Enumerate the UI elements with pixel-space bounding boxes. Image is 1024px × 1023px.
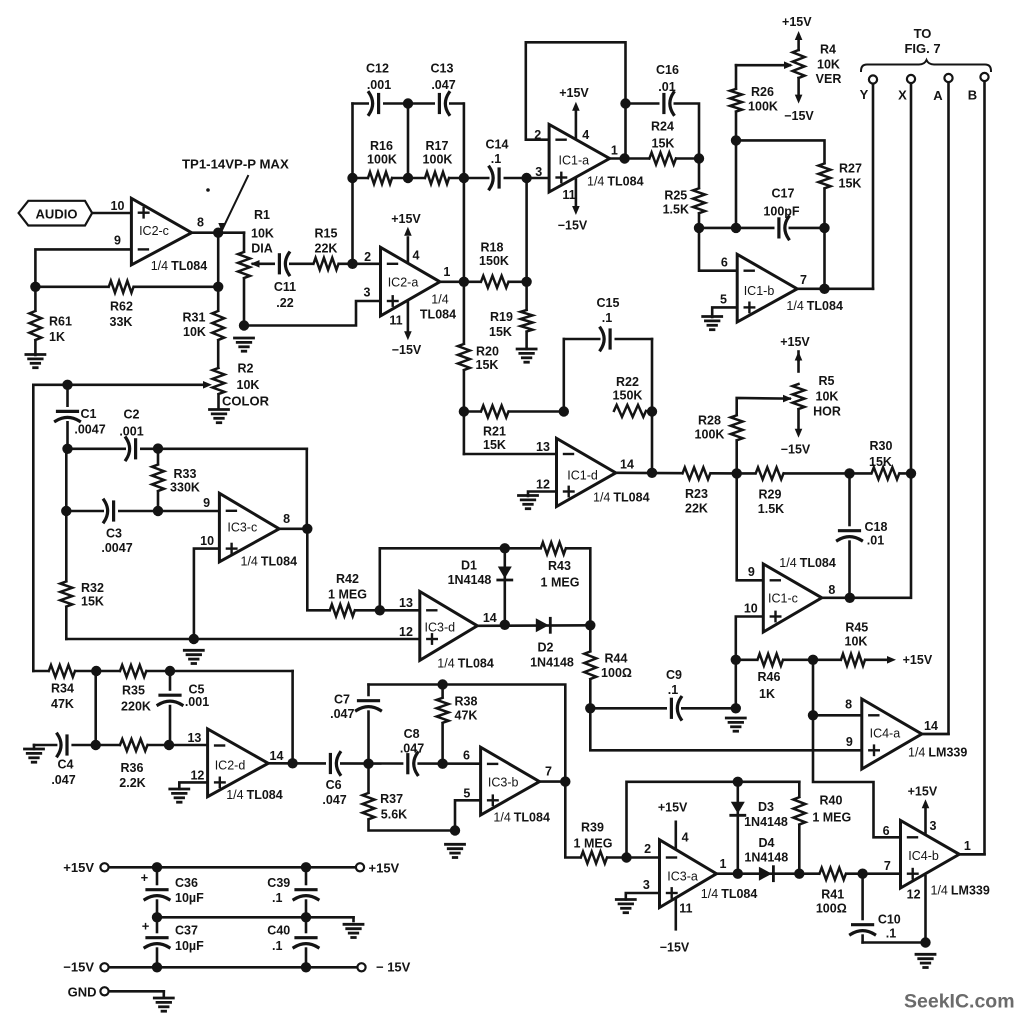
resistor R36 bbox=[120, 738, 148, 753]
ground IC1-d pin12 bbox=[519, 496, 538, 509]
wire IC3-b pin5 step bbox=[455, 800, 481, 830]
svg-text:.001: .001 bbox=[367, 78, 391, 92]
ground IC2-d pin12 bbox=[170, 789, 189, 802]
label IC4-b 1/4 LM339 bbox=[931, 884, 990, 898]
wire C18 branch bbox=[848, 473, 851, 597]
svg-text:R45: R45 bbox=[845, 621, 868, 635]
capacitor C39 bbox=[293, 885, 319, 899]
label IC2-a pin4 bbox=[413, 249, 420, 263]
label R25 bbox=[663, 189, 689, 217]
wire R29 to R30 line bbox=[737, 472, 911, 475]
wire IC2-c output to node 8 bbox=[192, 231, 244, 234]
wire mid vertical C12-R16 bbox=[407, 104, 410, 179]
svg-text:D4: D4 bbox=[759, 836, 775, 850]
svg-text:100K: 100K bbox=[423, 153, 453, 167]
capacitor C9 bbox=[667, 696, 681, 720]
svg-text:R15: R15 bbox=[315, 227, 338, 241]
wire R34 R35 line bbox=[33, 670, 292, 673]
svg-text:5: 5 bbox=[463, 787, 470, 801]
resistor R32 bbox=[59, 582, 74, 607]
terminal Y bbox=[869, 75, 877, 83]
label R28 bbox=[695, 414, 725, 442]
wire GND stub down bbox=[163, 991, 166, 997]
resistor R40 bbox=[792, 797, 807, 824]
label IC1-d bbox=[567, 469, 598, 483]
svg-text:DIA: DIA bbox=[251, 242, 273, 256]
label rail -15V left bbox=[63, 960, 94, 975]
label IC3-a -15V bbox=[660, 941, 690, 955]
resistor R35 bbox=[120, 664, 146, 679]
resistor R16 bbox=[368, 171, 392, 186]
svg-text:COLOR: COLOR bbox=[222, 394, 270, 409]
svg-text:1: 1 bbox=[964, 839, 971, 853]
svg-text:.01: .01 bbox=[867, 534, 884, 548]
capacitor C13 bbox=[435, 92, 449, 116]
diode D2 bbox=[536, 618, 551, 632]
label R18 bbox=[479, 241, 509, 269]
svg-text:.0047: .0047 bbox=[101, 541, 132, 555]
svg-text:R61: R61 bbox=[49, 315, 72, 329]
wire C11 to IC2-a pin 2 bbox=[289, 262, 381, 265]
wire IC3-c output bbox=[279, 527, 307, 530]
svg-text:R23: R23 bbox=[685, 487, 708, 501]
op-amp IC1-a bbox=[549, 124, 610, 192]
svg-text:R43: R43 bbox=[548, 559, 571, 573]
svg-text:VER: VER bbox=[816, 72, 842, 86]
wire C4 R36 line (IC2-d pin13) bbox=[34, 744, 208, 747]
svg-text:1/4TL084: 1/4TL084 bbox=[151, 259, 208, 273]
wire IC1-a pin3 node vertical bbox=[525, 178, 528, 349]
svg-text:C36: C36 bbox=[175, 876, 198, 890]
label IC3-a pin2 bbox=[644, 842, 651, 856]
label IC1-a pin1 bbox=[611, 144, 618, 158]
svg-text:8: 8 bbox=[197, 216, 204, 230]
resistor R45 bbox=[841, 652, 865, 667]
svg-text:1.5K: 1.5K bbox=[663, 203, 689, 217]
label R33 bbox=[170, 467, 200, 495]
label IC4-b +15V bbox=[908, 785, 938, 799]
wire C1 vertical bbox=[66, 385, 69, 449]
label IC1-c pin9 bbox=[748, 565, 755, 579]
label IC3-c pin9 bbox=[203, 496, 210, 510]
wire IC1-b output to Y line bbox=[797, 287, 873, 290]
svg-text:+15V: +15V bbox=[391, 212, 421, 226]
svg-text:C17: C17 bbox=[772, 187, 795, 201]
resistor R23 bbox=[683, 466, 711, 481]
svg-text:R36: R36 bbox=[121, 761, 144, 775]
svg-text:1/4TL084: 1/4TL084 bbox=[786, 299, 843, 313]
svg-text:15K: 15K bbox=[652, 137, 675, 151]
resistor R22 bbox=[614, 403, 646, 418]
svg-text:100K: 100K bbox=[695, 428, 725, 442]
wire R2 wiper line bbox=[33, 383, 203, 386]
svg-text:.001: .001 bbox=[119, 425, 143, 439]
wire GND stub bbox=[109, 990, 164, 993]
svg-text:+15V: +15V bbox=[903, 653, 933, 667]
svg-text:.1: .1 bbox=[491, 152, 501, 166]
label B bbox=[968, 88, 977, 103]
svg-text:− 15V: − 15V bbox=[376, 960, 411, 975]
svg-text:+15V: +15V bbox=[658, 801, 688, 815]
speck dot bbox=[206, 188, 210, 192]
label IC4-a pin14 bbox=[924, 719, 938, 733]
terminal X bbox=[907, 75, 915, 83]
svg-text:15K: 15K bbox=[489, 325, 512, 339]
resistor R34 bbox=[49, 664, 75, 679]
svg-text:C15: C15 bbox=[597, 296, 620, 310]
label IC1-d pin13 bbox=[536, 440, 550, 454]
label C16 bbox=[656, 63, 679, 94]
wire C17 to R27 bottom bbox=[788, 227, 825, 230]
capacitor C18 bbox=[837, 526, 863, 540]
label TO FIG 7 bbox=[904, 26, 940, 56]
svg-text:15K: 15K bbox=[483, 438, 506, 452]
wire IC3-c out vertical bbox=[305, 449, 308, 529]
capacitor C37 bbox=[142, 919, 170, 948]
svg-text:1 MEG: 1 MEG bbox=[574, 837, 613, 851]
ground R2 bbox=[210, 410, 229, 423]
svg-text:.047: .047 bbox=[431, 78, 455, 92]
svg-text:A: A bbox=[933, 88, 943, 103]
svg-text:IC3-b: IC3-b bbox=[488, 776, 519, 790]
svg-text:4: 4 bbox=[413, 249, 420, 263]
op-amp IC2-c bbox=[131, 198, 191, 265]
label IC2-d bbox=[215, 759, 246, 773]
label R24 bbox=[651, 120, 674, 151]
label IC4-b pin6 bbox=[883, 824, 890, 838]
arrow IC2-a +15V bbox=[404, 227, 412, 236]
label D1 bbox=[448, 559, 492, 588]
diode D4 bbox=[759, 867, 774, 881]
ground IC1-b pin5 bbox=[703, 317, 722, 330]
svg-text:IC1-d: IC1-d bbox=[567, 469, 598, 483]
capacitor C1 bbox=[55, 407, 81, 421]
label IC3-d pin13 bbox=[399, 596, 413, 610]
label IC3-b 1/4 TL084 bbox=[493, 811, 550, 825]
svg-text:Y: Y bbox=[860, 87, 869, 102]
svg-text:AUDIO: AUDIO bbox=[36, 206, 78, 221]
svg-text:15K: 15K bbox=[869, 455, 892, 469]
wire IC3-b output bbox=[540, 780, 566, 783]
label IC1-a 1/4 TL084 bbox=[587, 174, 644, 188]
ground R37 / IC3-b pin5 bbox=[446, 844, 465, 857]
label C1 bbox=[74, 407, 105, 437]
svg-text:R39: R39 bbox=[581, 821, 604, 835]
arrow IC2-a -15V bbox=[404, 331, 412, 340]
wire R38 top line bbox=[369, 685, 566, 782]
wire IC2-d pin 12 stub bbox=[179, 782, 207, 789]
label C6 bbox=[322, 778, 346, 807]
svg-text:−15V: −15V bbox=[784, 109, 814, 123]
label IC2-c pin10 bbox=[111, 199, 125, 213]
svg-text:R20: R20 bbox=[476, 345, 499, 359]
label IC1-c pin10 bbox=[744, 602, 758, 616]
label IC3-b bbox=[488, 776, 519, 790]
svg-text:1.5K: 1.5K bbox=[758, 502, 784, 516]
label IC4-b pin3 bbox=[930, 819, 937, 833]
svg-text:330K: 330K bbox=[170, 481, 200, 495]
label R27 bbox=[839, 162, 862, 191]
svg-text:R24: R24 bbox=[651, 120, 674, 134]
svg-text:.1: .1 bbox=[602, 311, 612, 325]
label IC2-d pin12 bbox=[190, 769, 204, 783]
resistor R18 bbox=[481, 274, 509, 289]
svg-text:C9: C9 bbox=[666, 668, 682, 682]
svg-text:1/4LM339: 1/4LM339 bbox=[931, 884, 990, 898]
label IC1-a -15V bbox=[558, 219, 588, 233]
label IC3-a pin11 bbox=[679, 902, 692, 916]
wire IC1-c pin 9 bbox=[737, 473, 764, 580]
resistor R30 bbox=[872, 466, 900, 481]
capacitor C2 bbox=[126, 437, 140, 461]
label R21 bbox=[483, 425, 506, 453]
wire IC1-b pin 5 ground stub bbox=[712, 307, 737, 317]
svg-text:D1: D1 bbox=[461, 559, 477, 573]
label IC2-a +15V bbox=[391, 212, 421, 226]
svg-text:1N4148: 1N4148 bbox=[530, 656, 574, 670]
wire R5 stem top bbox=[797, 360, 800, 372]
label IC2-a pin1 bbox=[443, 265, 450, 279]
wire IC3-d pin 12 line bbox=[194, 638, 420, 641]
svg-text:C18: C18 bbox=[865, 520, 888, 534]
svg-text:6: 6 bbox=[883, 824, 890, 838]
wire C16 branch right bbox=[675, 104, 700, 159]
svg-text:13: 13 bbox=[187, 731, 201, 745]
ground GND terminal bbox=[154, 998, 173, 1011]
resistor R15 bbox=[314, 256, 339, 271]
svg-text:1/4TL084: 1/4TL084 bbox=[437, 657, 494, 671]
wire R32 vertical bbox=[65, 449, 68, 639]
wire mid rail bbox=[157, 916, 354, 919]
label R41 bbox=[816, 888, 847, 916]
resistor R26 bbox=[729, 89, 744, 112]
label IC2-d 1/4 TL084 bbox=[226, 788, 283, 802]
wire R38 vertical bbox=[441, 685, 444, 764]
svg-text:14: 14 bbox=[483, 611, 497, 625]
wire C14 line to IC1-a pin3 bbox=[464, 177, 549, 180]
label A bbox=[933, 88, 943, 103]
wire IC2-d output line bbox=[268, 762, 480, 765]
terminal B bbox=[980, 73, 988, 81]
label IC4-b pin1 bbox=[964, 839, 971, 853]
svg-text:1N4148: 1N4148 bbox=[744, 815, 788, 829]
capacitor C3 bbox=[104, 499, 118, 523]
svg-text:R25: R25 bbox=[664, 189, 687, 203]
label IC3-a 1/4 TL084 bbox=[701, 887, 758, 901]
svg-text:+15V: +15V bbox=[369, 861, 400, 876]
svg-text:GND: GND bbox=[68, 985, 97, 1000]
svg-text:22K: 22K bbox=[685, 502, 708, 516]
wire R15 node up to R16 line bbox=[351, 104, 354, 264]
svg-text:C16: C16 bbox=[656, 63, 679, 77]
label IC1-a pin3 bbox=[535, 165, 542, 179]
arrow R45 +15V bbox=[887, 656, 896, 664]
svg-text:1/4LM339: 1/4LM339 bbox=[908, 746, 967, 760]
label IC3-d 1/4 TL084 bbox=[437, 657, 494, 671]
arrow IC1-a -15V bbox=[572, 206, 580, 215]
label R2 bbox=[222, 362, 270, 409]
svg-text:12: 12 bbox=[399, 625, 413, 639]
label C15 bbox=[597, 296, 620, 325]
svg-text:10µF: 10µF bbox=[175, 891, 204, 905]
svg-text:C8: C8 bbox=[404, 727, 420, 741]
svg-text:.01: .01 bbox=[658, 80, 675, 94]
svg-text:3: 3 bbox=[643, 878, 650, 892]
label IC2-c pin9 bbox=[114, 234, 121, 248]
resistor R41 bbox=[820, 866, 846, 881]
label IC1-b bbox=[744, 284, 775, 298]
svg-text:.047: .047 bbox=[51, 773, 75, 787]
capacitor C8 bbox=[403, 752, 417, 776]
svg-text:C7: C7 bbox=[334, 693, 350, 707]
svg-text:+15V: +15V bbox=[908, 785, 938, 799]
resistor R20 bbox=[456, 344, 471, 370]
label R34 bbox=[51, 682, 74, 712]
svg-text:R32: R32 bbox=[81, 581, 104, 595]
label R17 bbox=[423, 139, 453, 167]
svg-text:100K: 100K bbox=[748, 100, 778, 114]
wire left vertical to R34 bbox=[32, 385, 35, 671]
svg-text:C6: C6 bbox=[326, 778, 342, 792]
svg-text:.1: .1 bbox=[668, 683, 678, 697]
wire R46 R45 line bbox=[736, 658, 813, 661]
svg-text:R42: R42 bbox=[336, 572, 359, 586]
svg-text:11: 11 bbox=[679, 902, 692, 916]
svg-text:4: 4 bbox=[582, 128, 589, 142]
resistor R33 bbox=[151, 465, 166, 491]
wire C10 vertical bbox=[861, 874, 864, 943]
op-amp IC4-b bbox=[901, 821, 960, 889]
label IC4-a pin8 bbox=[845, 698, 852, 712]
svg-text:1N4148: 1N4148 bbox=[448, 573, 492, 587]
svg-text:10K: 10K bbox=[237, 378, 260, 392]
wire R2 bottom to ground bbox=[217, 394, 220, 409]
svg-text:C37: C37 bbox=[175, 924, 198, 938]
svg-text:11: 11 bbox=[562, 188, 575, 202]
svg-text:IC1-b: IC1-b bbox=[744, 284, 775, 298]
svg-text:1/4: 1/4 bbox=[431, 293, 448, 307]
svg-text:10µF: 10µF bbox=[175, 939, 204, 953]
wire C10 bottom line bbox=[863, 941, 926, 944]
label R45 bbox=[845, 621, 869, 649]
label R39 bbox=[574, 821, 613, 851]
wire IC2-a -15V stem bbox=[407, 302, 410, 331]
wire C4 ground stub bbox=[33, 745, 36, 749]
svg-text:14: 14 bbox=[620, 458, 634, 472]
svg-text:X: X bbox=[898, 88, 907, 103]
wire R61 branch bbox=[34, 287, 37, 355]
capacitor C5 bbox=[157, 691, 183, 705]
svg-text:10: 10 bbox=[200, 534, 214, 548]
label IC4-b bbox=[908, 849, 939, 863]
wire R40 vertical bbox=[798, 782, 801, 874]
wire IC3-c pin10 step bbox=[194, 549, 220, 639]
wire IC2-a +15V stem bbox=[407, 238, 410, 263]
wire IC4-b pin3 stem bbox=[924, 808, 927, 833]
svg-text:1/4TL084: 1/4TL084 bbox=[779, 556, 836, 570]
svg-text:9: 9 bbox=[748, 565, 755, 579]
svg-text:+15V: +15V bbox=[782, 15, 812, 29]
svg-text:R22: R22 bbox=[616, 375, 639, 389]
wire R39 to IC3-a pin2 bbox=[607, 856, 660, 859]
svg-text:4: 4 bbox=[682, 831, 689, 845]
resistor R62 bbox=[109, 279, 134, 294]
wire IC1-b pin 6 bbox=[699, 228, 737, 271]
label IC2-a pin3 bbox=[364, 286, 371, 300]
svg-text:R21: R21 bbox=[483, 425, 506, 439]
svg-text:1/4TL084: 1/4TL084 bbox=[593, 491, 650, 505]
svg-text:C10: C10 bbox=[878, 913, 901, 927]
svg-text:R34: R34 bbox=[51, 682, 74, 696]
wire -15V rail bbox=[109, 966, 357, 969]
label IC3-a pin3 bbox=[643, 878, 650, 892]
wire R37 bottom line bbox=[369, 819, 456, 830]
label IC2-c pin8 bbox=[197, 216, 204, 230]
svg-text:C40: C40 bbox=[267, 924, 290, 938]
svg-text:47K: 47K bbox=[51, 697, 74, 711]
label IC2-a 1/4 bbox=[420, 293, 456, 322]
label GND bbox=[68, 985, 97, 1000]
svg-text:R46: R46 bbox=[758, 670, 781, 684]
label D3 bbox=[744, 800, 788, 829]
label IC2-a pin2 bbox=[364, 250, 371, 264]
svg-text:1/4TL084: 1/4TL084 bbox=[493, 811, 550, 825]
svg-text:R38: R38 bbox=[455, 695, 478, 709]
label IC1-b pin5 bbox=[720, 293, 727, 307]
svg-text:R30: R30 bbox=[870, 439, 893, 453]
resistor R46 bbox=[758, 652, 784, 667]
brace TO FIG 7 bbox=[861, 60, 991, 71]
label R5 bbox=[813, 374, 841, 419]
label IC3-a pin1 bbox=[720, 857, 727, 871]
ground C10 bbox=[916, 954, 935, 967]
resistor R24 bbox=[649, 151, 676, 166]
label IC2-d pin14 bbox=[270, 749, 284, 763]
svg-text:R44: R44 bbox=[605, 652, 628, 666]
resistor R37 bbox=[361, 793, 376, 819]
svg-text:+15V: +15V bbox=[559, 86, 589, 100]
svg-text:R29: R29 bbox=[759, 488, 782, 502]
label IC4-a pin9 bbox=[846, 735, 853, 749]
svg-text:.001: .001 bbox=[185, 695, 209, 709]
svg-text:8: 8 bbox=[283, 512, 290, 526]
label TP1 bbox=[182, 157, 289, 172]
wire IC3-b out down to R39 bbox=[565, 782, 581, 858]
label rail -15V right bbox=[376, 960, 411, 975]
wire C2 line bbox=[68, 447, 307, 450]
label IC4-b pin12 bbox=[907, 888, 921, 902]
label R44 bbox=[601, 652, 632, 681]
wire IC4-b output to B line bbox=[959, 853, 984, 856]
svg-text:R2: R2 bbox=[238, 362, 254, 376]
capacitor C16 bbox=[660, 92, 674, 116]
svg-text:TP1-14VP-P MAX: TP1-14VP-P MAX bbox=[182, 157, 289, 172]
label IC4-b pin7 bbox=[884, 859, 891, 873]
wire R27 branch bbox=[736, 140, 825, 228]
wire C3 line bbox=[66, 510, 219, 513]
svg-text:1 MEG: 1 MEG bbox=[541, 576, 580, 590]
wire IC3-a pin3 ground stub bbox=[626, 893, 660, 900]
label IC3-b pin5 bbox=[463, 787, 470, 801]
label IC1-c bbox=[768, 592, 798, 606]
svg-text:IC4-a: IC4-a bbox=[870, 727, 901, 741]
svg-text:+: + bbox=[142, 919, 150, 934]
label R46 bbox=[758, 670, 781, 701]
label IC3-a pin4 bbox=[682, 831, 689, 845]
label R5 +15V bbox=[780, 335, 810, 349]
label Y bbox=[860, 87, 869, 102]
wire R34 junction vertical bbox=[94, 671, 97, 745]
